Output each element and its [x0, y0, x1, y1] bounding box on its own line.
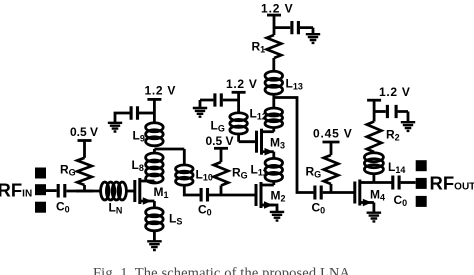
inductor L14	[364, 153, 383, 162]
wire 0.5V to R_G stage2	[220, 148, 223, 162]
supply bar 0.5V (stage2)	[214, 147, 228, 150]
supply bar 1.2V (R1)	[267, 14, 281, 17]
svg-text:C0: C0	[198, 203, 212, 218]
capacitor C0 (stage4)	[315, 186, 321, 200]
wire bypass cap stage2 to ground	[200, 100, 213, 108]
supply bar 1.2V (stage1)	[147, 98, 161, 101]
svg-text:C0: C0	[394, 193, 408, 208]
transistor M2	[255, 184, 258, 206]
bypass capacitor (stage1)	[131, 106, 137, 120]
ground (R1 bypass)	[306, 34, 320, 43]
wire M4 drain to output C0	[374, 181, 392, 184]
wire R1 to 1.2V bar	[273, 15, 276, 35]
inductor L8	[146, 153, 164, 162]
inductor L13	[265, 71, 283, 80]
supply bar 0.5V (stage1)	[78, 139, 92, 142]
wire M2 source to ground	[261, 205, 277, 212]
wire M4 drain to L14	[372, 173, 375, 182]
wire L13 to node B	[272, 94, 275, 98]
transistor M3	[255, 131, 258, 153]
node A wire to L10	[154, 149, 184, 165]
bypass capacitor (R2)	[387, 105, 396, 118]
svg-text:R1: R1	[252, 40, 266, 55]
wire L_S to ground	[153, 231, 156, 242]
wire R_G to rail stage2	[220, 186, 223, 196]
resistor R_G (stage1)	[77, 158, 92, 185]
wire L12 to node B	[272, 98, 275, 109]
svg-text:1.2 V: 1.2 V	[261, 2, 294, 16]
transistor M4	[353, 182, 356, 204]
svg-text:L8: L8	[132, 158, 144, 173]
output pad G (bottom)	[416, 196, 427, 207]
svg-text:1.2 V: 1.2 V	[145, 84, 177, 98]
input pad G (top)	[35, 168, 46, 179]
output pad G (top)	[416, 160, 427, 171]
svg-text:M2: M2	[271, 189, 286, 204]
svg-text:LN: LN	[109, 201, 123, 216]
wire C0 to M4 gate	[323, 191, 355, 194]
resistor R_G (stage2)	[214, 162, 229, 186]
svg-text:L13: L13	[286, 77, 303, 92]
inductor L9	[146, 123, 164, 132]
wire L10 to C0 stage2	[184, 185, 199, 195]
svg-text:L9: L9	[133, 129, 145, 144]
svg-text:LS: LS	[169, 212, 182, 227]
output pad S (signal) RF_OUT	[416, 178, 427, 189]
ground (stage1 bypass)	[108, 123, 122, 132]
svg-text:R2: R2	[386, 128, 400, 143]
wire L9 to 1.2V	[153, 99, 156, 123]
inductor L_G	[230, 113, 248, 121]
wire M4 source to ground	[372, 203, 375, 213]
wire M1 source to L_S	[153, 201, 156, 209]
svg-text:RFOUT: RFOUT	[430, 172, 474, 193]
inductor L12	[265, 108, 283, 116]
resistor R1	[267, 35, 282, 58]
wire L_N to M1 gate	[126, 190, 135, 193]
wire bypass cap to ground	[115, 113, 130, 122]
supply bar 1.2V (stage2)	[232, 91, 246, 94]
svg-text:LG: LG	[211, 119, 225, 134]
supply bar 0.45V	[323, 141, 340, 144]
wire L13 top to R1	[272, 58, 275, 72]
capacitor C0 (input)	[58, 184, 65, 198]
wire C0 to M2 gate	[209, 194, 256, 197]
svg-text:0.5 V: 0.5 V	[206, 134, 234, 148]
wire 1.2V to bypass cap R1	[274, 26, 290, 29]
wire C0 to output pad	[401, 181, 416, 184]
ground (M4 source)	[367, 213, 382, 222]
wire pad to C0	[46, 189, 57, 192]
wire R_G to input rail	[83, 185, 86, 191]
wire M2 drain to L11	[272, 181, 275, 185]
svg-text:L12: L12	[250, 107, 267, 122]
wire C0 to L_N	[66, 190, 100, 193]
wire L11 to M3 source	[272, 152, 275, 159]
input pad G (bottom)	[35, 202, 46, 213]
ground (R2 bypass)	[401, 122, 415, 131]
ground (M2 source)	[270, 212, 284, 221]
wire R2 to 1.2V bar	[373, 100, 376, 121]
svg-text:0.45 V: 0.45 V	[313, 127, 353, 141]
svg-text:1.2 V: 1.2 V	[226, 77, 258, 91]
supply bar 1.2V (R2)	[367, 99, 381, 102]
node input rail junction	[76, 190, 93, 193]
resistor R2	[367, 122, 382, 153]
wire L_G to 1.2V	[237, 92, 240, 113]
svg-text:M3: M3	[270, 136, 285, 151]
wire L14 to R2	[372, 152, 375, 153]
svg-text:RG: RG	[232, 166, 248, 181]
input pad S (signal) RF_IN	[35, 184, 46, 195]
bypass capacitor (stage2)	[215, 93, 221, 106]
svg-text:M1: M1	[154, 185, 169, 200]
svg-text:C0: C0	[312, 201, 326, 216]
inductor L_N	[101, 182, 109, 200]
ground (L_S)	[147, 241, 162, 250]
svg-text:RFIN: RFIN	[0, 180, 32, 201]
inductor L11	[265, 158, 283, 167]
wire 0.45V to R_G stage4	[330, 142, 333, 155]
inductor L_S	[146, 208, 164, 217]
svg-text:L10: L10	[196, 168, 213, 183]
inductor L10	[176, 165, 194, 173]
svg-text:Fig. 1. The schematic of the p: Fig. 1. The schematic of the proposed LN…	[93, 265, 354, 275]
capacitor C0 (output)	[393, 176, 399, 190]
svg-text:0.5 V: 0.5 V	[70, 125, 98, 139]
bypass capacitor (R1)	[292, 21, 299, 34]
wire M3 drain to L12	[272, 127, 275, 131]
svg-text:L14: L14	[388, 160, 405, 175]
wire 1.2V to bypass cap stage2	[223, 99, 239, 102]
resistor R_G (stage4)	[324, 155, 339, 184]
wire bypass cap R1 to ground	[300, 28, 313, 34]
wire R_G to rail stage4	[330, 184, 333, 193]
wire 0.5V to R_G	[83, 141, 86, 158]
ground (stage2 bypass)	[193, 108, 207, 117]
svg-text:1.2 V: 1.2 V	[379, 85, 411, 99]
svg-text:RG: RG	[60, 163, 76, 178]
svg-text:M4: M4	[370, 188, 385, 203]
wire bypass cap R2 to ground	[398, 112, 408, 122]
transistor M1	[133, 180, 136, 202]
svg-text:C0: C0	[56, 200, 70, 215]
svg-text:RG: RG	[306, 165, 322, 180]
node B wire to stage4	[274, 98, 314, 193]
wire M3 gate to L_G	[239, 134, 257, 142]
wire M1 drain to L8	[153, 181, 156, 183]
wire L8 top to node A	[153, 149, 156, 153]
wire 1.2V to bypass cap	[139, 112, 155, 115]
capacitor C0 (stage2)	[201, 188, 207, 202]
wire 1.2V to bypass cap R2	[374, 110, 386, 113]
